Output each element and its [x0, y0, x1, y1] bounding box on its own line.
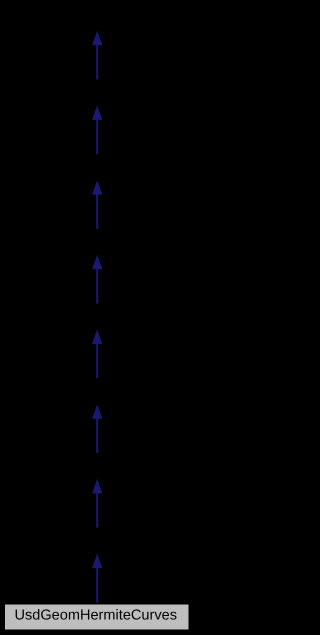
svg-text:UsdGeomHermiteCurves: UsdGeomHermiteCurves [15, 607, 178, 623]
inheritance arrow 4 (UsdGeomBoundable to UsdGeomXformable) [92, 255, 102, 304]
inheritance arrow 7 (UsdGeomCurves to UsdGeomPointBased) [92, 479, 102, 528]
inheritance arrow 5 (UsdGeomGprim to UsdGeomBoundable) [92, 330, 102, 379]
class box UsdGeomHermiteCurves [5, 604, 190, 630]
inheritance arrow 8 (UsdGeomHermiteCurves to UsdGeomCurves) [92, 554, 102, 603]
inheritance arrow 2 (UsdGeomImageable to UsdTyped) [92, 105, 102, 154]
inheritance arrow 6 (UsdGeomPointBased to UsdGeomGprim) [92, 404, 102, 453]
inheritance arrow 3 (UsdGeomXformable to UsdGeomImageable) [92, 180, 102, 229]
inheritance arrow 1 (UsdTyped to UsdSchemaBase) [92, 31, 102, 80]
